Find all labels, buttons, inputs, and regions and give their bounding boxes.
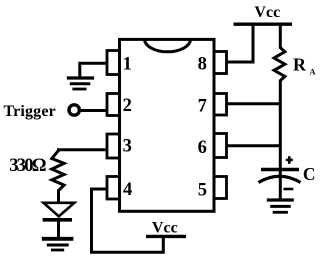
svg-text:8: 8 bbox=[198, 54, 207, 74]
svg-text:2: 2 bbox=[123, 96, 132, 116]
svg-text:3: 3 bbox=[123, 137, 132, 157]
svg-text:Ω: Ω bbox=[32, 156, 47, 176]
svg-text:Vcc: Vcc bbox=[152, 219, 178, 236]
svg-text:6: 6 bbox=[198, 138, 207, 158]
svg-text:4: 4 bbox=[123, 180, 132, 200]
svg-text:A: A bbox=[309, 66, 316, 76]
svg-text:Vcc: Vcc bbox=[254, 4, 280, 21]
svg-text:R: R bbox=[293, 55, 307, 75]
svg-text:C: C bbox=[303, 164, 316, 184]
svg-text:Trigger: Trigger bbox=[4, 103, 56, 120]
svg-text:7: 7 bbox=[198, 96, 207, 116]
svg-text:1: 1 bbox=[123, 55, 132, 75]
svg-text:5: 5 bbox=[198, 180, 207, 200]
